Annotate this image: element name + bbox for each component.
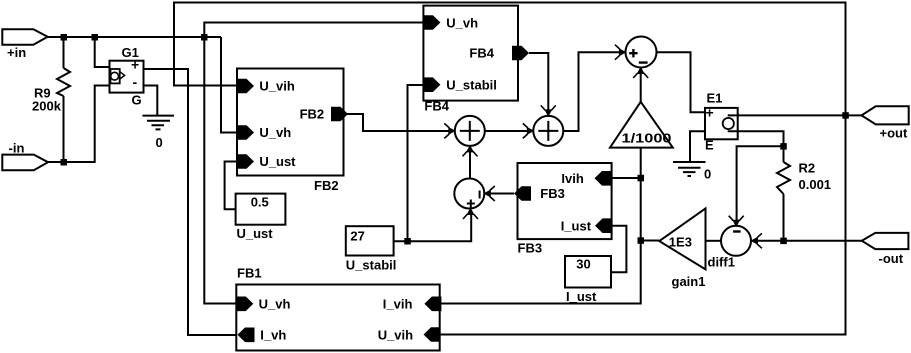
wire 1/1000 apex to S4 bottom xyxy=(640,73,642,102)
node junction dot R9 bottom xyxy=(61,159,68,166)
summer diff1 circle xyxy=(721,226,751,256)
wire S3 to S1 xyxy=(469,151,471,179)
svg-text:U_ust: U_ust xyxy=(259,154,296,169)
svg-text:FB2: FB2 xyxy=(300,107,325,122)
svg-text:0: 0 xyxy=(156,135,163,150)
pin FB1 I_vih input xyxy=(424,297,441,312)
svg-text:G: G xyxy=(132,93,142,108)
svg-text:R2: R2 xyxy=(799,161,816,176)
wire +in branch to FB1 U_vh xyxy=(204,37,236,304)
pin FB1 U_vh input xyxy=(236,297,253,312)
svg-text:E1: E1 xyxy=(707,91,723,106)
summer S2 circle xyxy=(533,116,563,146)
wire feedback vertical from 1/1000 base to FB1 I_vih xyxy=(441,148,641,304)
svg-text:U_ust: U_ust xyxy=(237,226,274,241)
amplifier E3 gain1 triangle xyxy=(659,208,705,269)
svg-text:1E3: 1E3 xyxy=(669,235,692,250)
pin FB1 I_vh output xyxy=(238,328,255,343)
node junction dot R9 top xyxy=(61,34,68,41)
component E1 inner circle source symbol xyxy=(723,118,734,129)
wire arrowhead into S1 left xyxy=(444,123,456,138)
svg-text:FB3: FB3 xyxy=(518,241,543,256)
wire arrowhead into S4 left xyxy=(615,45,627,60)
svg-text:200k: 200k xyxy=(32,99,62,114)
svg-text:-: - xyxy=(133,74,138,90)
constant box 27 xyxy=(346,226,394,255)
wire arrowhead into S2 top xyxy=(541,105,556,117)
summer S1 circle xyxy=(455,116,485,146)
svg-text:I_ust: I_ust xyxy=(566,289,597,304)
wire G1 minus to ground xyxy=(144,86,158,116)
svg-text:Ivih: Ivih xyxy=(561,171,583,186)
svg-text:+: + xyxy=(131,57,139,73)
port arrow -in xyxy=(2,155,48,171)
svg-text:0.001: 0.001 xyxy=(799,177,832,192)
svg-text:FB2: FB2 xyxy=(314,178,339,193)
wire arrowhead into S3 right xyxy=(483,186,495,201)
node junction dot G1 branch xyxy=(92,34,99,41)
node junction dot FB4/FB1 branch xyxy=(201,34,208,41)
wire arrowhead into S1 bottom xyxy=(463,145,478,157)
node junction dot R2 top xyxy=(780,143,787,150)
wire -out to diff1 right input xyxy=(756,240,862,242)
wire R2 leads xyxy=(783,146,785,162)
wire E1 output to +out xyxy=(728,114,862,116)
constant box 0.5 xyxy=(236,194,286,225)
port arrow +in xyxy=(2,29,47,45)
wire 27 box to S3 and FB4 U_stabil xyxy=(394,214,472,242)
svg-text:27: 27 xyxy=(350,229,364,244)
wire FB4 output to S2 top xyxy=(529,53,548,111)
wire FB3 output to S3 xyxy=(490,193,515,195)
block FB2 box xyxy=(237,69,344,176)
svg-text:I_vih: I_vih xyxy=(383,297,413,312)
block FB4 box xyxy=(423,6,518,101)
node junction dot E3 tee xyxy=(638,237,645,244)
wire FB3 I_ust to 30 box xyxy=(611,226,626,273)
wire +in to FB2 U_vh xyxy=(221,37,237,133)
wire -in horizontal to G1 lower-left xyxy=(48,86,110,163)
node junction dot +out tap xyxy=(842,112,849,119)
wire arrowhead into diff1 top xyxy=(729,216,744,228)
ground below G1 xyxy=(143,116,175,130)
summer S3 circle xyxy=(454,179,484,209)
svg-text:U_vih: U_vih xyxy=(378,328,413,343)
wire diff1 output to E3 base xyxy=(706,240,722,242)
svg-text:I_ust: I_ust xyxy=(561,219,592,234)
resistor R2 zigzag xyxy=(777,162,790,194)
svg-text:-out: -out xyxy=(879,251,904,266)
svg-text:0.5: 0.5 xyxy=(251,195,269,210)
pin FB2 output xyxy=(331,107,348,122)
wire arrowhead into S2 left xyxy=(523,123,535,138)
svg-text:+: + xyxy=(706,105,714,121)
svg-text:U_vih: U_vih xyxy=(259,79,294,94)
wire +in branch to FB4 U_vh xyxy=(204,23,423,38)
wire R2 node to diff1 top xyxy=(737,146,784,222)
summer S4 circle xyxy=(626,37,657,68)
wire E1 minus to ground xyxy=(690,131,705,162)
pin FB3 I_ust input xyxy=(595,218,612,233)
pin FB3 output xyxy=(514,186,531,201)
svg-text:I_vh: I_vh xyxy=(260,328,286,343)
svg-text:30: 30 xyxy=(576,257,590,272)
wire 0.5 box to FB2 U_ust xyxy=(225,162,237,210)
pin FB2 U_ust input xyxy=(237,154,254,169)
pin FB4 U_vh input xyxy=(423,15,440,30)
wire +in to G1 upper-left xyxy=(95,37,110,67)
wire E1 lower-right to R2 top node xyxy=(728,131,784,146)
wire R9 top lead xyxy=(63,37,65,68)
ground below E1 xyxy=(673,162,706,176)
svg-text:FB1: FB1 xyxy=(237,266,262,281)
constant box 30 xyxy=(565,256,611,288)
svg-text:U_vh: U_vh xyxy=(259,297,291,312)
svg-text:+out: +out xyxy=(880,126,908,141)
svg-text:E: E xyxy=(705,138,714,153)
svg-text:U_stabil: U_stabil xyxy=(446,78,497,93)
wire R9 bottom lead xyxy=(63,96,65,162)
port arrow -out xyxy=(862,233,909,249)
wire S2 to S4 xyxy=(563,52,620,131)
component G1 inner source symbol (square+circle+arrow) xyxy=(111,69,120,83)
svg-text:U_vh: U_vh xyxy=(446,16,478,31)
component G1 box xyxy=(110,61,144,93)
svg-text:-in: -in xyxy=(9,141,25,156)
svg-text:FB3: FB3 xyxy=(540,186,565,201)
wire FB2 output to summer S1 xyxy=(344,114,449,131)
svg-text:U_vh: U_vh xyxy=(259,125,291,140)
wire arrowhead into diff1 right xyxy=(750,233,762,248)
wire S4 output to E1 plus xyxy=(656,52,705,112)
wire G1 plus to FB1 I_vh xyxy=(144,69,237,335)
pin FB4 U_stabil input xyxy=(423,77,440,92)
pin FB3 Ivih input xyxy=(595,171,612,186)
node junction dot U_stabil split xyxy=(404,238,411,245)
pin FB2 U_vh input xyxy=(237,125,254,140)
wire +in main horizontal xyxy=(48,36,222,38)
svg-text:gain1: gain1 xyxy=(672,274,706,289)
wire arrowhead into S3 bottom xyxy=(463,208,478,220)
block FB3 box xyxy=(518,163,612,239)
block FB1 box xyxy=(236,285,439,351)
node junction dot R2 bottom xyxy=(780,238,787,245)
wire tee to FB3 Ivih xyxy=(612,177,641,179)
svg-text:0: 0 xyxy=(704,167,711,182)
pin FB2 U_vih input xyxy=(237,79,254,94)
wire output-voltage loop net (top/right/bottom/left rectangle) xyxy=(174,3,846,335)
port arrow +out xyxy=(862,106,909,124)
svg-text:FB4: FB4 xyxy=(424,99,449,114)
pin FB4 output xyxy=(512,46,529,61)
component E1 box xyxy=(705,108,738,139)
svg-text:+in: +in xyxy=(7,45,26,60)
svg-text:diff1: diff1 xyxy=(708,255,735,270)
svg-text:FB4: FB4 xyxy=(469,46,494,61)
node junction dot Ivih tee xyxy=(638,175,645,182)
svg-text:1/1000: 1/1000 xyxy=(622,131,672,146)
resistor R9 zigzag xyxy=(57,68,70,96)
wire tee to E3 vertex xyxy=(641,240,660,242)
wire S1 to S2 xyxy=(485,130,528,132)
wire arrowhead into S4 bottom xyxy=(633,67,648,79)
amplifier 1/1000 triangle xyxy=(610,102,673,148)
pin FB1 U_vih input xyxy=(424,327,441,342)
svg-text:U_stabil: U_stabil xyxy=(346,258,397,273)
